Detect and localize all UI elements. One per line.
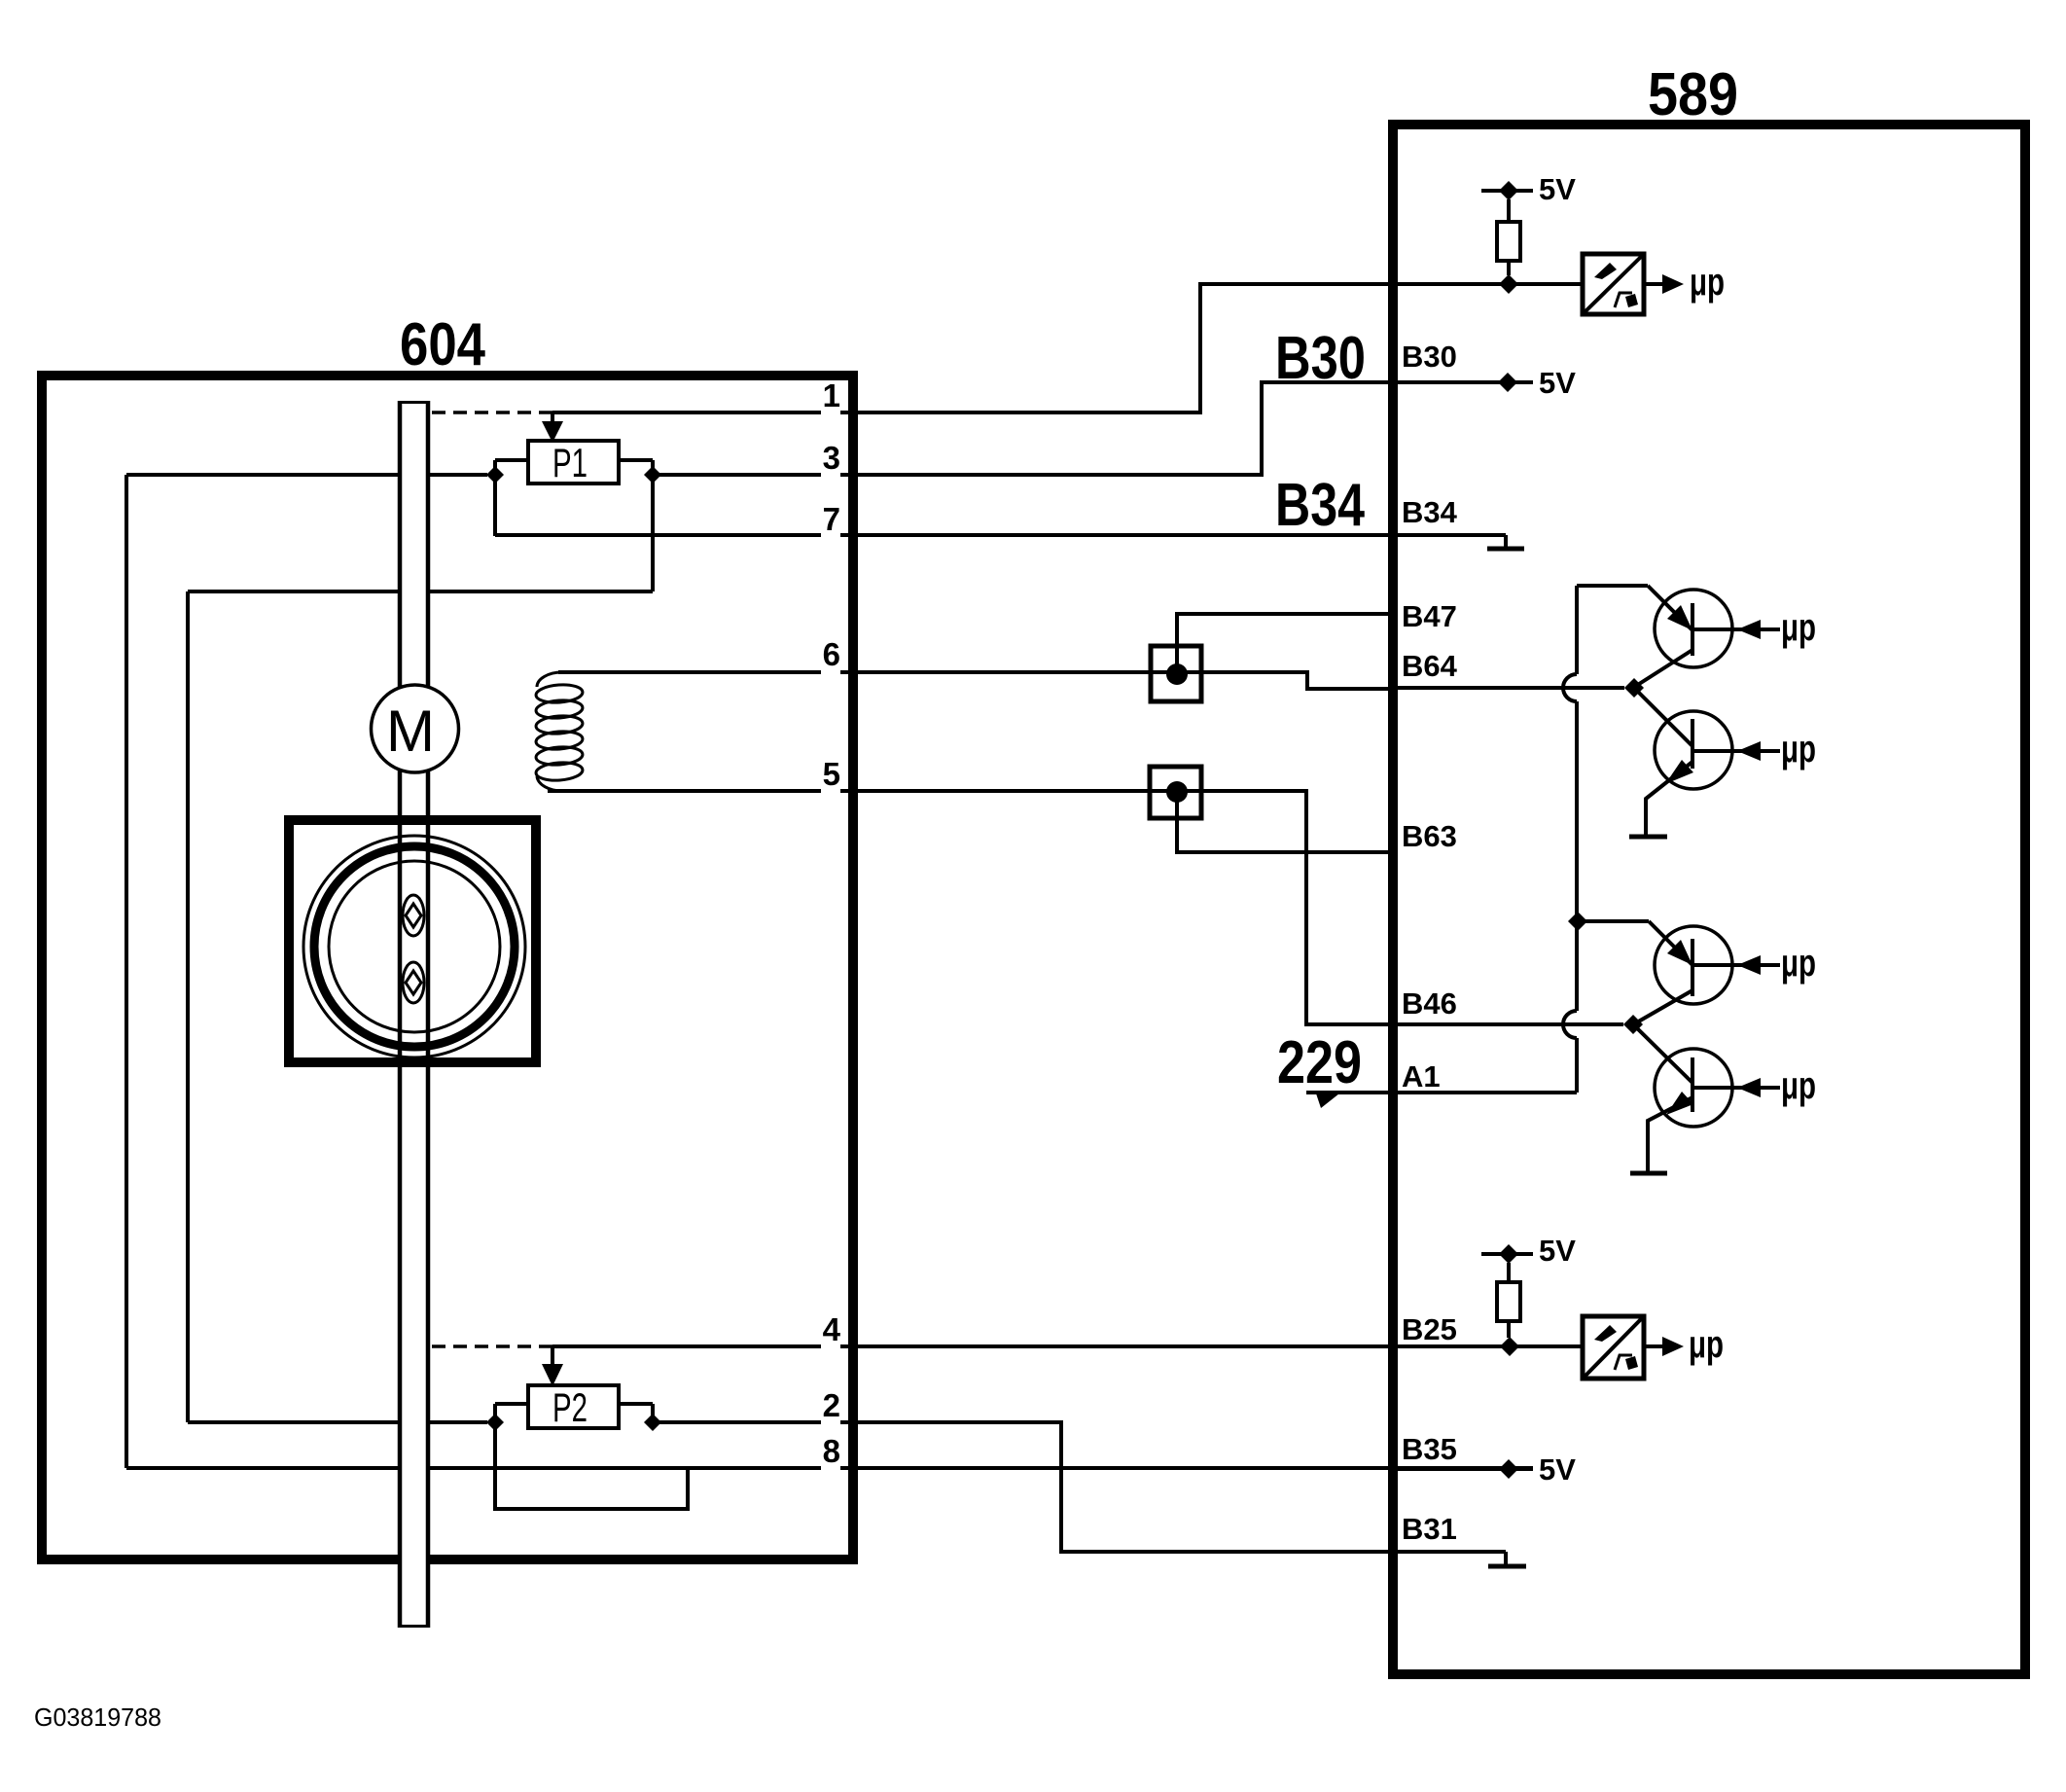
svg-text:B34: B34 [1402,495,1458,529]
svg-text:2: 2 [823,1387,840,1423]
svg-text:5V: 5V [1539,172,1576,206]
svg-text:G03819788: G03819788 [34,1702,161,1732]
svg-text:μp: μp [1781,606,1816,649]
svg-text:M: M [386,699,435,764]
svg-text:4: 4 [823,1311,841,1347]
svg-text:B46: B46 [1402,986,1457,1021]
svg-text:B35: B35 [1402,1432,1457,1466]
svg-text:B64: B64 [1402,649,1458,683]
svg-text:5V: 5V [1539,1234,1576,1268]
svg-text:B34: B34 [1275,472,1365,539]
svg-text:μp: μp [1690,261,1725,304]
svg-text:B47: B47 [1402,599,1457,633]
svg-text:5V: 5V [1539,366,1576,400]
svg-text:μp: μp [1781,728,1816,771]
svg-text:B31: B31 [1402,1512,1457,1546]
svg-text:B63: B63 [1402,819,1457,853]
svg-text:8: 8 [823,1433,840,1469]
svg-text:229: 229 [1277,1029,1362,1096]
svg-text:B30: B30 [1402,340,1457,374]
svg-text:589: 589 [1648,61,1738,128]
svg-text:3: 3 [823,440,840,476]
svg-text:7: 7 [823,501,840,537]
svg-text:604: 604 [400,311,485,378]
svg-text:μp: μp [1689,1323,1724,1366]
svg-text:5V: 5V [1539,1452,1576,1487]
svg-text:P2: P2 [552,1384,588,1430]
svg-text:μp: μp [1781,1064,1816,1107]
svg-text:A1: A1 [1402,1059,1441,1093]
svg-text:P1: P1 [552,440,588,485]
svg-text:B25: B25 [1402,1312,1457,1346]
svg-text:μp: μp [1781,942,1816,985]
svg-text:6: 6 [823,636,840,672]
svg-text:5: 5 [823,756,840,792]
svg-text:B30: B30 [1275,325,1366,392]
svg-text:1: 1 [823,377,840,413]
